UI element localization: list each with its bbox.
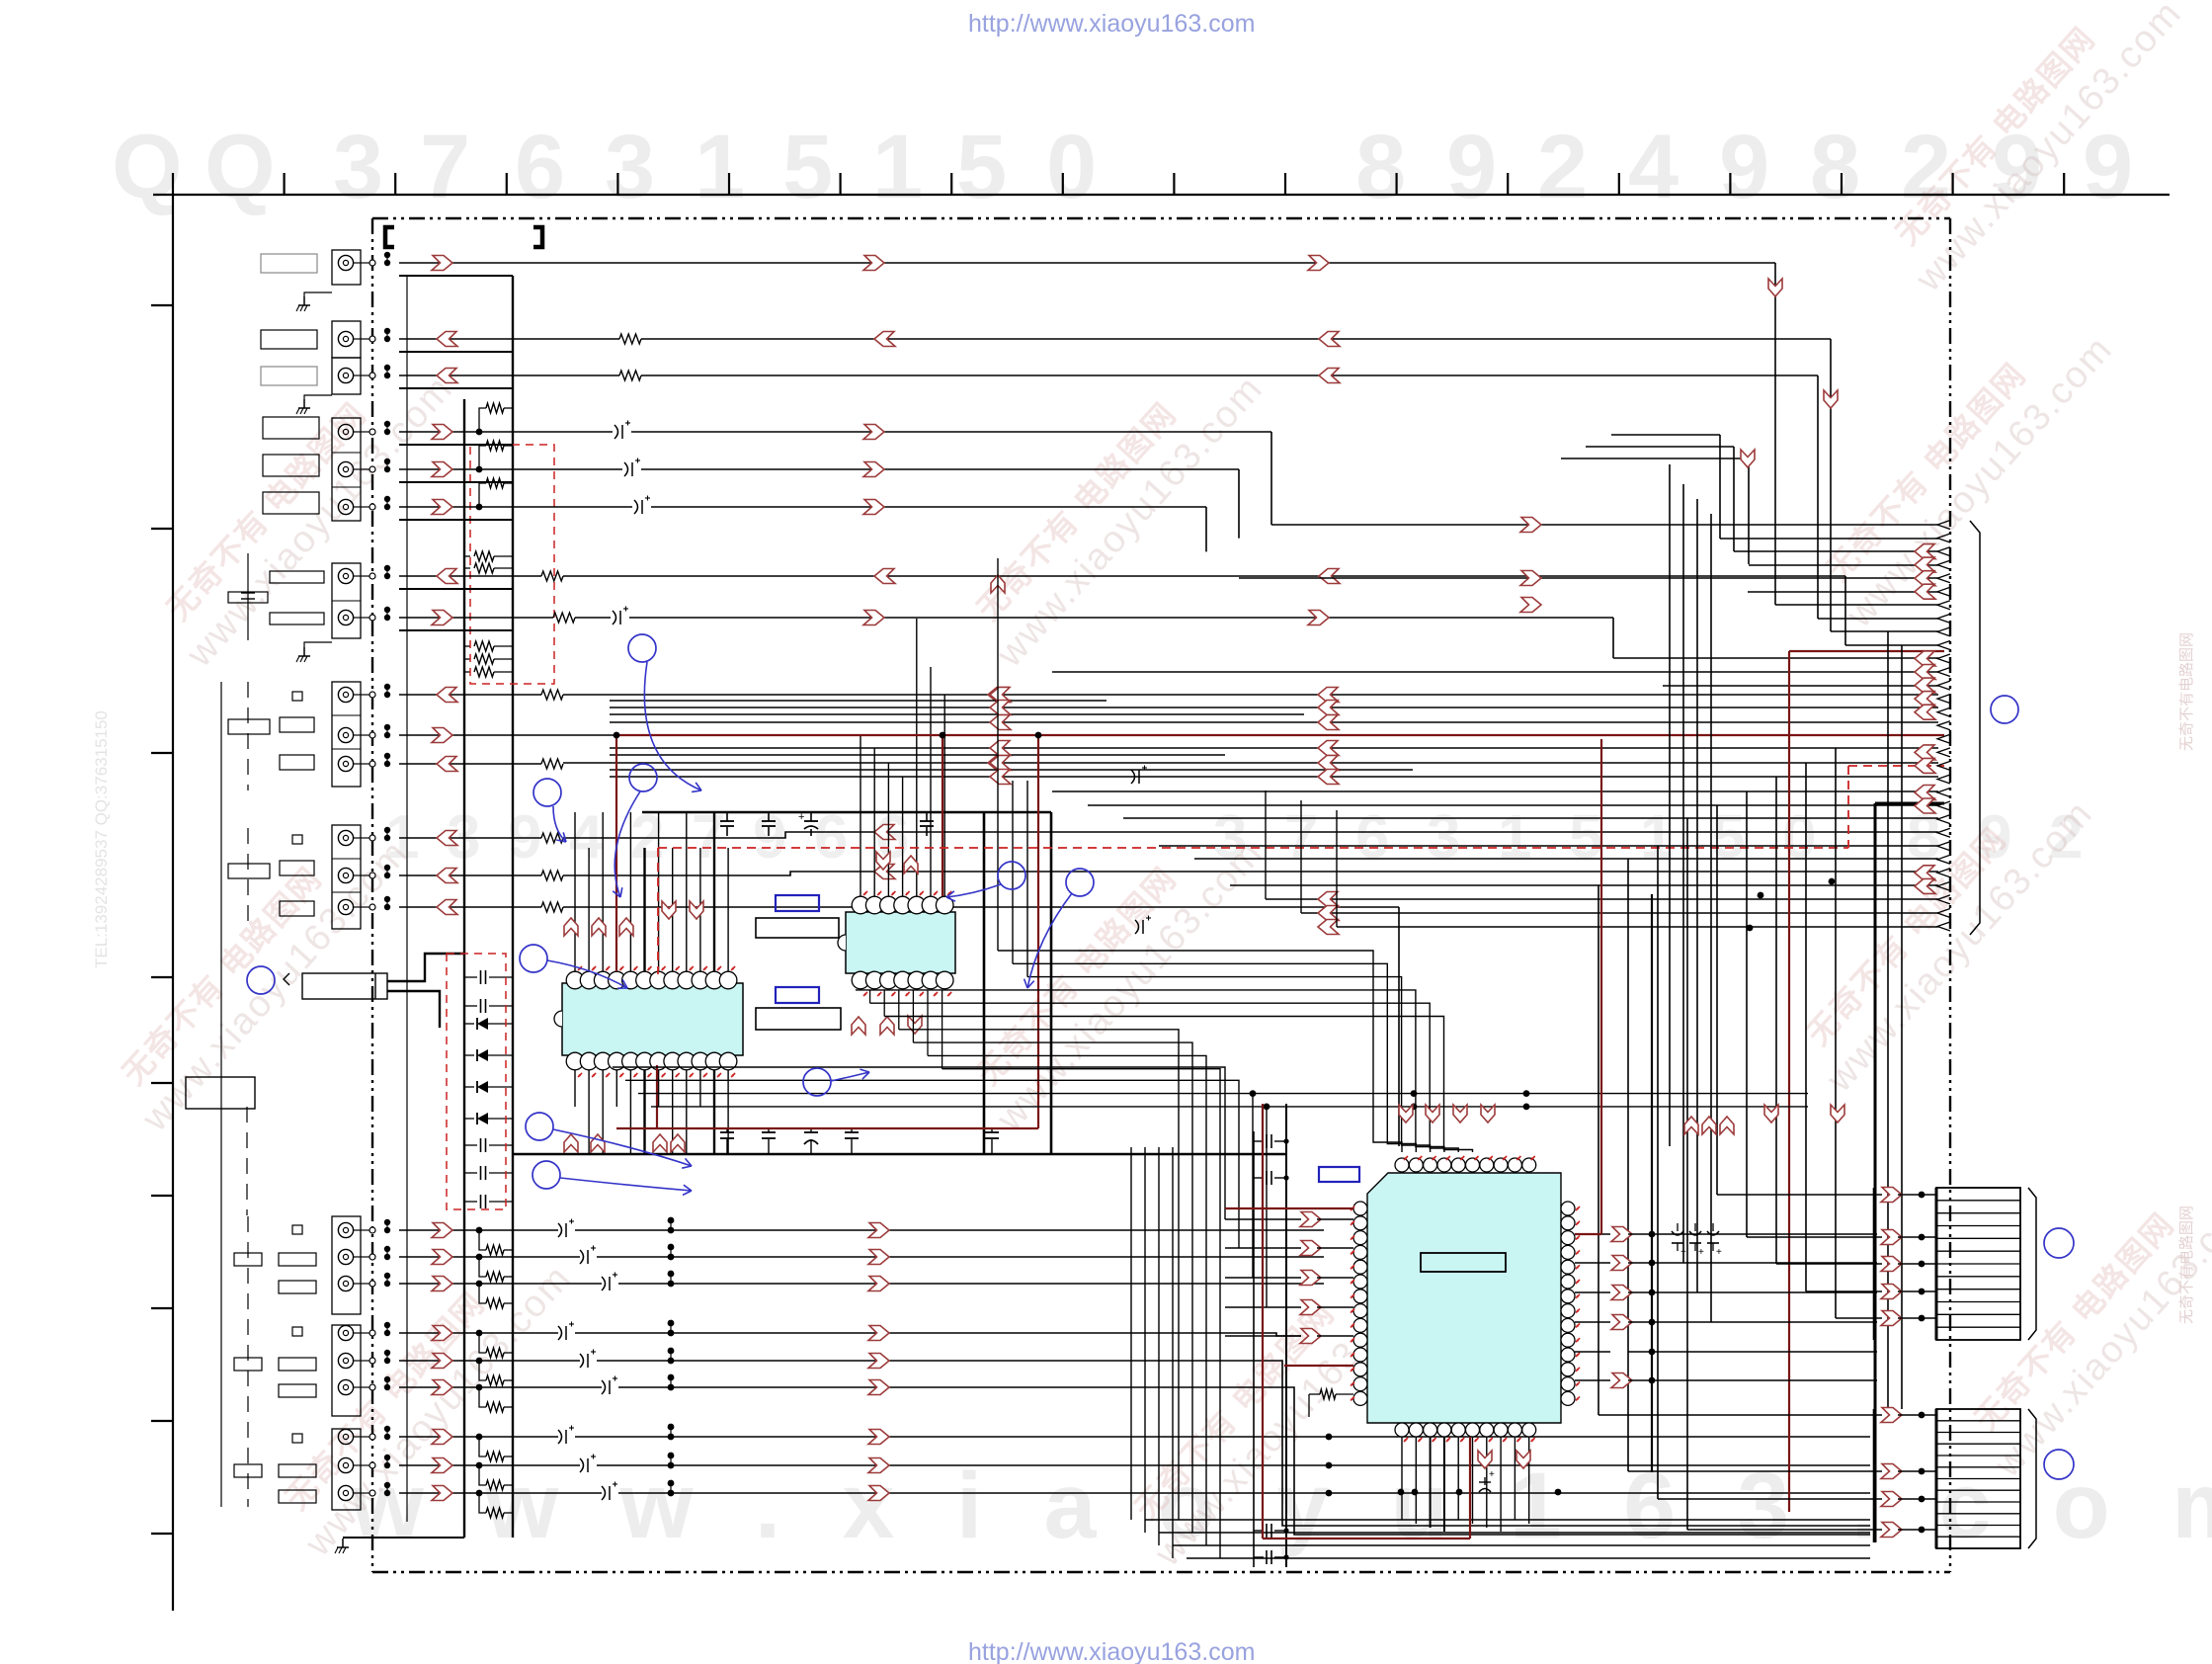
wire vertical left of U3	[1253, 1131, 1255, 1567]
label box L13	[280, 861, 314, 875]
arrow row 9	[432, 1486, 452, 1501]
arrow row 4	[432, 1326, 452, 1341]
wire jack J23 to board edge	[361, 1492, 372, 1494]
svg-text:TEL:13924289537 QQ:376315150: TEL:13924289537 QQ:376315150	[92, 710, 111, 968]
jack group box 6	[332, 682, 361, 787]
RCA jack J10	[338, 727, 353, 742]
svg-text:9: 9	[2083, 117, 2133, 217]
jack group box 2	[332, 321, 361, 358]
wire CD L channel	[399, 262, 1775, 264]
ground	[303, 296, 305, 305]
capacitor decoupling	[810, 812, 812, 821]
RCA jack J18	[338, 1325, 353, 1340]
svg-text:6: 6	[515, 117, 565, 217]
wire return 3	[399, 387, 513, 389]
label box L4	[263, 417, 319, 439]
arrow row 5	[432, 1354, 452, 1369]
jack group box 8	[332, 1216, 361, 1314]
IC U3 pins left	[1353, 1202, 1367, 1215]
wire return 1	[399, 275, 513, 277]
resistor loop low 2	[479, 1257, 486, 1277]
wire jack J5 to board edge	[361, 468, 372, 470]
wire jack J21 to board edge	[361, 1436, 372, 1438]
wire drop 1	[1774, 263, 1776, 605]
wire jack J22 to board edge	[361, 1464, 372, 1466]
label box L20	[234, 1358, 262, 1371]
svg-text:8: 8	[1810, 117, 1860, 217]
resistor ladder R4	[464, 658, 470, 660]
diode ladder D2	[464, 1054, 474, 1056]
dark red bottom	[1262, 1104, 1264, 1539]
svg-text:3: 3	[1427, 803, 1460, 872]
wire lower bundle from U1	[613, 1067, 1225, 1219]
svg-text:无奇不有电路图网: 无奇不有电路图网	[2178, 632, 2195, 751]
junction dots below U3	[1398, 1489, 1405, 1496]
arrow out 1	[432, 256, 452, 271]
dash-dot border of BOARD block	[372, 217, 1950, 219]
svg-text:http://www.xiaoyu163.com: http://www.xiaoyu163.com	[968, 1638, 1255, 1664]
svg-text:0: 0	[1046, 117, 1097, 217]
svg-text:5: 5	[1711, 803, 1745, 872]
wire jack J20 to board edge	[361, 1386, 372, 1388]
jack group box 7	[332, 825, 361, 929]
RCA jack J3	[338, 368, 353, 382]
polarity mark square	[292, 692, 302, 701]
IC U1 bottom pin wires	[574, 1061, 576, 1107]
arrow marks on verticals	[1741, 450, 1755, 467]
connector CN2	[1936, 1188, 2020, 1340]
wire vertical bundle to lower rows	[1265, 790, 1267, 899]
callout circle 6	[533, 1161, 560, 1189]
RCA jack J21	[338, 1429, 353, 1444]
wire drop rec 1	[1270, 432, 1272, 525]
callout arrow 2	[614, 791, 640, 897]
svg-text:5: 5	[782, 117, 833, 217]
ground	[303, 399, 305, 408]
wire drop 3	[1817, 375, 1819, 619]
label box L17	[234, 1253, 262, 1266]
wire jack J3 to board edge	[361, 374, 372, 376]
resistor loop low 5	[479, 1361, 486, 1380]
RCA jack J14	[338, 899, 353, 914]
wire aux 2 (shield)	[399, 734, 616, 736]
svg-text:3: 3	[605, 117, 655, 217]
label box L16	[279, 1253, 316, 1266]
wire input row 7	[399, 1436, 558, 1438]
IC U1 body	[562, 983, 743, 1055]
wire jack J14 to board edge	[361, 906, 372, 908]
wire shield bus	[304, 292, 332, 296]
ground	[342, 1539, 344, 1547]
connector CN1 tips	[1937, 521, 1950, 530]
arrow row 2	[432, 1250, 452, 1265]
arrows above U2	[876, 852, 890, 870]
RCA jack J9	[338, 687, 353, 702]
callout arrow 8	[946, 884, 1001, 897]
RCA jack J22	[338, 1457, 353, 1472]
label box L2	[261, 330, 317, 349]
wire drop rec 3	[1205, 507, 1207, 551]
svg-text:2: 2	[1537, 117, 1588, 217]
wire jack J6 to board edge	[361, 506, 372, 508]
svg-text:+: +	[1489, 1469, 1495, 1480]
ground	[303, 647, 305, 656]
wire long mid verticals	[1669, 464, 1671, 1146]
label box L12	[280, 755, 314, 770]
arrow row 6	[432, 1380, 452, 1395]
wire rec out 3	[399, 506, 632, 508]
resistor loop low 1	[479, 1230, 486, 1250]
label box L18	[279, 1281, 316, 1293]
connector CN3	[1936, 1409, 2020, 1548]
wire md return	[399, 588, 513, 590]
diode ladder D3	[464, 1086, 474, 1088]
arrows at CN1	[1915, 544, 1935, 559]
capacitor decoupling	[926, 812, 928, 821]
resistor ladder R1	[464, 555, 470, 557]
RCA jack J7	[338, 568, 353, 583]
wire jack J4 to board edge	[361, 431, 372, 433]
RCA jack J23	[338, 1485, 353, 1500]
label box L14	[228, 864, 270, 878]
label box L19	[279, 1358, 316, 1371]
arrow out rec 3	[432, 500, 452, 515]
wire return 5	[399, 481, 513, 483]
svg-text:+: +	[1698, 1247, 1704, 1258]
arrow row 3	[432, 1277, 452, 1291]
label box L1	[261, 254, 317, 273]
wire vertical bundle top	[1719, 435, 1721, 539]
label box L23	[234, 1464, 262, 1477]
tuner module box	[302, 973, 387, 999]
thick black feed	[1875, 802, 1944, 805]
wire drop rec 2	[1238, 469, 1240, 539]
wires U3 right	[1575, 1233, 1610, 1235]
label box L22	[279, 1464, 316, 1477]
dark red U3 right	[1575, 1233, 1601, 1235]
wire staircase bundle to U3	[997, 558, 999, 951]
label box L24	[279, 1490, 316, 1503]
wire vertical bus A	[463, 399, 465, 1538]
IC U1 top pin wires	[574, 812, 576, 972]
wire jack J16 to board edge	[361, 1256, 372, 1258]
wire aux 3	[399, 763, 541, 765]
capacitor decoupling	[726, 812, 728, 821]
wire jack J17 to board edge	[361, 1283, 372, 1285]
svg-text:5: 5	[956, 117, 1007, 217]
arrows on mid rows	[990, 688, 1011, 703]
wire input row 8	[399, 1464, 580, 1466]
label box L6	[263, 492, 319, 514]
label box U1 black	[756, 918, 839, 938]
wire rec out 2	[399, 468, 622, 470]
resistor loop low 6	[479, 1387, 486, 1407]
resistor loop low 7	[479, 1437, 486, 1456]
capacitor ladder C2	[464, 1005, 477, 1007]
wire input row 6	[399, 1386, 602, 1388]
dark red net wire	[616, 734, 1944, 736]
wires U3 bottom	[1401, 1437, 1403, 1520]
diode ladder D1	[464, 1023, 474, 1025]
IC U2 pins bottom	[852, 971, 869, 989]
resistor ladder R2	[464, 567, 470, 569]
wire input row 4	[399, 1332, 558, 1334]
wire md in L	[399, 575, 541, 577]
svg-text:6: 6	[1355, 803, 1389, 872]
label box U2 black	[756, 1008, 841, 1030]
callout arrow 3	[553, 806, 566, 842]
arrow row 1	[432, 1223, 452, 1238]
callout circle 9	[1066, 869, 1094, 896]
svg-text:0: 0	[1782, 803, 1816, 872]
wire jack J15 to board edge	[361, 1229, 372, 1231]
wire phono 2	[399, 874, 541, 876]
capacitor decoupling	[768, 1128, 770, 1132]
wire bus join to ground	[343, 1537, 464, 1539]
svg-text:1: 1	[695, 117, 745, 217]
red dashed group box A	[470, 445, 554, 684]
red dashed signal path	[658, 847, 1848, 849]
capacitor ladder C3	[464, 1144, 477, 1146]
arrows into U3 left	[1300, 1212, 1321, 1227]
arrow row 8	[432, 1458, 452, 1473]
polarity mark square	[292, 1327, 302, 1336]
jack group box 10	[332, 1429, 361, 1510]
capacitor decoupling	[851, 1128, 853, 1132]
callout circle 2	[629, 764, 657, 791]
RCA jack J1	[338, 255, 353, 270]
jack group box 5	[332, 563, 361, 638]
extra mid band rows	[610, 700, 1106, 702]
label box U1 blue	[776, 895, 819, 911]
polarity mark square	[292, 835, 302, 844]
wire tape L	[399, 374, 619, 376]
RCA jack J2	[338, 331, 353, 346]
wire md in R	[399, 617, 553, 619]
wire tuner to bus	[387, 954, 464, 981]
callout arrow 4	[547, 960, 627, 988]
wire jack J10 to board edge	[361, 734, 372, 736]
wire input row 2	[399, 1256, 580, 1258]
RCA jack J8	[338, 610, 353, 624]
svg-text:6: 6	[814, 803, 848, 872]
callout circle 1	[628, 634, 656, 662]
jack group box 3	[332, 358, 361, 394]
capacitor column C100	[220, 682, 222, 1507]
wire jack J1 to board edge	[361, 262, 372, 264]
arrow on staircase vertical	[991, 575, 1005, 593]
resistor ladder R3	[464, 645, 470, 647]
RCA jack J16	[338, 1249, 353, 1264]
resistor at U3 left	[1309, 1393, 1320, 1395]
jack box partitions	[332, 357, 361, 359]
label box L10	[280, 717, 314, 732]
label box L21	[279, 1384, 316, 1397]
callout circle tuner	[247, 966, 275, 994]
IC U2 pins top	[852, 896, 869, 914]
wire jack J8 to board edge	[361, 617, 372, 619]
wire jack J18 to board edge	[361, 1332, 372, 1334]
IC U2 body	[846, 912, 955, 973]
svg-text:4: 4	[1628, 117, 1679, 217]
svg-text:+: +	[1680, 1247, 1686, 1258]
resistor loop R11	[479, 446, 486, 469]
block title brackets	[385, 227, 394, 247]
connector CN1 bracket	[1970, 521, 1980, 935]
jack group box 9	[332, 1325, 361, 1416]
RCA jack J11	[338, 756, 353, 771]
wire jack J19 to board edge	[361, 1360, 372, 1362]
IC U3 pins right	[1561, 1202, 1575, 1215]
RCA jack J19	[338, 1353, 353, 1368]
RCA jack J15	[338, 1222, 353, 1237]
svg-text:9: 9	[1446, 117, 1497, 217]
IC U1 pins top	[566, 971, 584, 989]
resistor loop low 3	[479, 1284, 486, 1303]
RCA jack J12	[338, 830, 353, 845]
svg-text:w w w . x i a o y u 1 6 3 . c: w w w . x i a o y u 1 6 3 . c o m	[350, 1454, 2212, 1558]
capacitor decoupling	[810, 1128, 812, 1132]
jack group box 1	[332, 250, 361, 285]
callout arrow 1	[644, 662, 701, 790]
arrows into CN3	[1881, 1408, 1902, 1423]
wire power rail bottom	[512, 1153, 1286, 1156]
wire verticals to bottom bus	[1130, 1147, 1132, 1520]
wire inner shield bus	[406, 276, 408, 1522]
wire input row 5	[399, 1360, 580, 1362]
junction dots on red net	[940, 732, 946, 739]
arrow out rec 1	[432, 425, 452, 440]
label box L15	[280, 901, 314, 916]
RCA jack J17	[338, 1276, 353, 1290]
callout circle CN2	[2044, 1228, 2074, 1258]
extra right verticals	[1887, 631, 1889, 1409]
label box L11	[228, 719, 270, 734]
wire input row 3	[399, 1283, 602, 1285]
RCA jack J20	[338, 1379, 353, 1394]
arrow out rec 2	[432, 462, 452, 477]
label box L9	[270, 613, 324, 624]
IC U3 pins bottom	[1395, 1423, 1409, 1437]
wire md return 2	[399, 629, 513, 631]
bottom bus lines	[1145, 1519, 1870, 1521]
wire vertical bus B	[512, 276, 514, 1538]
RCA jack J4	[338, 424, 353, 439]
resistor loop R12	[479, 483, 486, 507]
arrows below U3	[1478, 1451, 1492, 1468]
callout arrow 5	[553, 1129, 692, 1166]
polarity mark square	[292, 1225, 302, 1234]
wire jack J12 to board edge	[361, 837, 372, 839]
svg-text:1: 1	[1498, 803, 1531, 872]
svg-text:+: +	[1716, 1247, 1722, 1258]
callout circle CN1	[1991, 696, 2018, 723]
wire bus rows to connector CN1	[1271, 524, 1938, 526]
thick vertical right of U3	[1651, 894, 1653, 1472]
IC U3 pins top	[1395, 1158, 1409, 1172]
IC U3 label box	[1421, 1253, 1506, 1272]
RCA jack J5	[338, 461, 353, 476]
label box L5	[263, 455, 319, 476]
capacitors left of U3	[1254, 1140, 1264, 1142]
callout circle 7	[803, 1068, 831, 1096]
arrows below U2	[852, 1017, 865, 1035]
wire aux 1	[399, 694, 541, 696]
callout arrow 6	[560, 1178, 692, 1191]
callout circle 8	[998, 862, 1025, 889]
wire vertical drops right	[1598, 885, 1599, 1415]
wire jack J9 to board edge	[361, 694, 372, 696]
callout circle 4	[520, 945, 547, 972]
wire jack J2 to board edge	[361, 338, 372, 340]
wire power rail right black	[983, 812, 986, 1154]
wire jack J7 to board edge	[361, 575, 372, 577]
label box U3 blue	[1319, 1167, 1359, 1182]
arrow in 3	[437, 369, 457, 383]
arrows below U1	[564, 1134, 578, 1152]
wire return 4	[399, 444, 513, 446]
svg-text:9: 9	[1719, 117, 1769, 217]
red dashed group box B	[447, 954, 506, 1209]
wire jack J13 to board edge	[361, 874, 372, 876]
svg-text:Q: Q	[205, 117, 276, 217]
capacitor decoupling	[991, 1128, 993, 1132]
resistor ladder R5	[464, 671, 470, 673]
label box U2 blue	[776, 987, 819, 1003]
resistor loop R10	[479, 408, 486, 432]
capacitor decoupling	[768, 812, 770, 821]
svg-text:8: 8	[1355, 117, 1406, 217]
wire jack J11 to board edge	[361, 763, 372, 765]
svg-text:3: 3	[333, 117, 383, 217]
IC U1 pins bottom	[566, 1052, 584, 1070]
callout circle 3	[533, 779, 561, 806]
RCA jack J6	[338, 499, 353, 514]
capacitor ladder C4	[464, 1172, 477, 1174]
label box L7	[270, 571, 324, 583]
wire return 6	[399, 519, 513, 521]
capacitor on row 786	[1131, 770, 1135, 784]
junction dots near CN1	[1758, 892, 1764, 899]
arrows above U1	[564, 918, 578, 936]
callout circle CN3	[2044, 1450, 2074, 1479]
svg-text:7: 7	[420, 117, 470, 217]
svg-text:+: +	[798, 811, 804, 823]
diode ladder D4	[464, 1118, 474, 1120]
callout circle 5	[526, 1113, 553, 1140]
wire phono 3	[399, 906, 541, 908]
wire phono 1	[399, 837, 541, 839]
jack group box 4	[332, 418, 361, 521]
label box L8	[228, 592, 268, 603]
resistor loop low 4	[479, 1333, 486, 1353]
IC U3 body	[1367, 1173, 1561, 1423]
wire return 2	[399, 351, 513, 353]
arrows right bundle	[1684, 1117, 1698, 1134]
thick feeds CN2	[1873, 1188, 1876, 1340]
wire input row 9	[399, 1492, 602, 1494]
arrow row 7	[432, 1430, 452, 1445]
svg-text:1: 1	[872, 117, 923, 217]
wire CD R channel	[399, 338, 619, 340]
RCA jack J13	[338, 868, 353, 882]
capacitor ladder C1	[464, 976, 477, 978]
capacitor decoupling	[726, 1128, 728, 1132]
resistor loop low 9	[479, 1493, 486, 1513]
svg-text:http://www.xiaoyu163.com: http://www.xiaoyu163.com	[968, 10, 1255, 38]
capacitor ladder C5	[464, 1201, 477, 1203]
arrows top of U3 bundle	[1399, 1105, 1413, 1123]
